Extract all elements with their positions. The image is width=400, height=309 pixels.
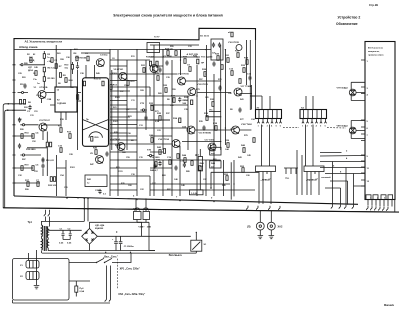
svg-text:ХS2 „Сеть 220в. 50гц”: ХS2 „Сеть 220в. 50гц” [118,293,146,296]
svg-text:„левый”: „левый” [261,179,272,182]
svg-text:3: 3 [267,125,268,127]
svg-text:0,5А: 0,5А [80,290,85,293]
svg-text:V3 КТ315Б: V3 КТ315Б [75,57,87,59]
svg-text:ТО1 КД503: ТО1 КД503 [201,57,213,59]
svg-text:5: 5 [276,125,277,127]
svg-text:6: 6 [325,125,326,127]
svg-text:h11 03.06: h11 03.06 [200,36,210,38]
svg-text:1: 1 [258,125,259,127]
svg-text:2: 2 [262,125,263,127]
svg-text:зад.: зад. [285,178,290,180]
svg-text:С3 50м: С3 50м [100,55,108,57]
svg-text:С19 1000: С19 1000 [150,157,160,159]
svg-text:Manuals: Manuals [384,304,395,307]
svg-text:V7П 5ГДШ: V7П 5ГДШ [337,87,349,89]
svg-text:А ЗЦТ 2СБ: А ЗЦТ 2СБ [187,53,199,56]
svg-text:громкая связь: громкая связь [368,55,384,57]
svg-text:Устройство 2: Устройство 2 [338,16,361,20]
svg-text:-15В: -15В [47,99,52,101]
svg-text:„правый”: „правый” [306,179,319,182]
svg-text:R46 4,7: R46 4,7 [150,169,158,172]
svg-text:мощности,: мощности, [368,51,380,53]
svg-text:V11 КТ315: V11 КТ315 [178,73,190,75]
svg-text:ТЗ ТУ: ТЗ ТУ [154,37,160,39]
svg-text:V14 КТ814: V14 КТ814 [158,138,170,141]
svg-text:Обозначение: Обозначение [336,22,358,26]
svg-text:30В: 30В [147,226,151,228]
svg-text:VД1-VД4: VД1-VД4 [95,224,105,227]
svg-text:1УД1408: 1УД1408 [57,102,67,105]
svg-text:Вкл./выкл.: Вкл./выкл. [169,254,183,257]
svg-text:3: 3 [311,125,312,127]
svg-text:15В: 15В [60,59,64,61]
svg-text:НР: НР [201,63,205,65]
svg-text:S2.1: S2.1 [133,209,138,211]
svg-text:V13 КТ819Б: V13 КТ819Б [199,132,212,134]
svg-text:V10 КТ815: V10 КТ815 [228,42,240,44]
svg-text:1-3.06: 1-3.06 [191,193,198,195]
svg-text:V8П 5ГДШ: V8П 5ГДШ [337,125,349,127]
svg-text:А1 Усилитель мощности: А1 Усилитель мощности [25,40,63,44]
svg-text:6: 6 [280,125,281,127]
svg-text:С17 1500: С17 1500 [205,140,215,142]
svg-text:„Вкл.„Сеть”: „Вкл.„Сеть” [103,255,119,258]
svg-text:0,5В: 0,5В [155,121,160,123]
svg-text:Электрическая схема усилителя: Электрическая схема усилителя мощности и… [113,14,223,18]
svg-text:Тр1: Тр1 [28,221,33,224]
svg-text:R22 910: R22 910 [48,185,57,187]
svg-text:ХА2: ХА2 [278,226,283,229]
svg-text:(Л): (Л) [247,226,251,229]
svg-text:V2 КТ3107: V2 КТ3107 [39,120,51,122]
svg-text:Стр.99: Стр.99 [369,3,378,7]
svg-text:2: 2 [307,125,308,127]
svg-text:Абвгд схема: Абвгд схема [19,45,38,49]
svg-text:R16 6800: R16 6800 [26,149,36,151]
svg-text:«30В»: «30В» [138,226,145,228]
svg-text:С1 2000м: С1 2000м [124,246,134,248]
svg-text:ХР1 „Сеть 220в”: ХР1 „Сеть 220в” [120,267,141,270]
svg-text:R15 1к: R15 1к [94,79,102,81]
svg-text:V17 ГТ404: V17 ГТ404 [241,85,253,88]
svg-text:КЦ405И: КЦ405И [95,227,104,230]
svg-text:V5 КТ361: V5 КТ361 [114,69,124,71]
svg-text:V12 КТ815: V12 КТ815 [197,84,209,86]
svg-text:5: 5 [320,125,321,127]
svg-text:В1 Усилитель: В1 Усилитель [368,48,384,50]
svg-text:12В: 12В [140,90,144,92]
svg-text:КТ361Б: КТ361Б [40,87,48,89]
svg-text:V18 ГТ402: V18 ГТ402 [241,123,253,126]
svg-text:1: 1 [302,125,303,127]
svg-text:тыловой: тыловой [321,176,331,179]
